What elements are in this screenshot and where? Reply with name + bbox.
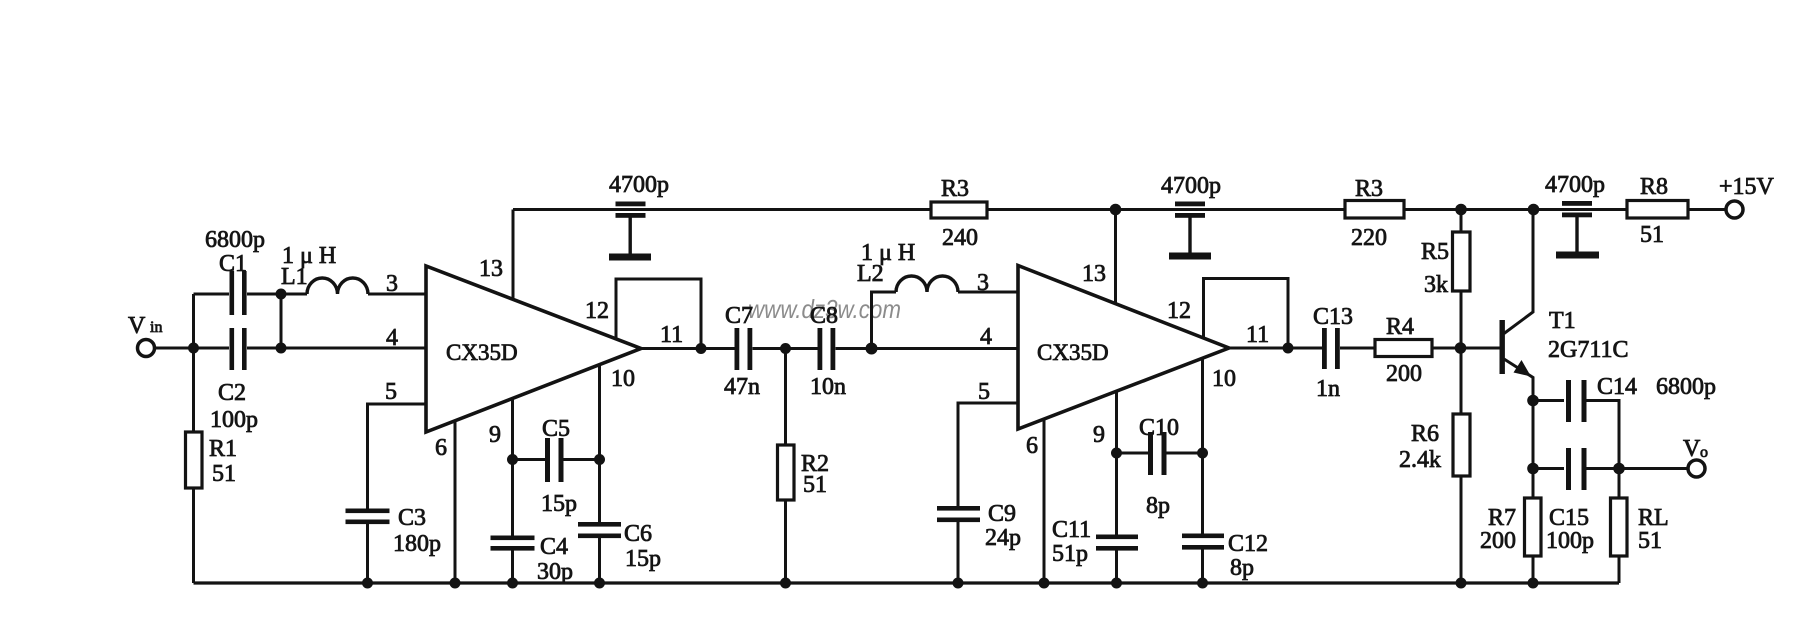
svg-text:C4: C4: [540, 534, 568, 560]
resistor R6: [1460, 348, 1463, 414]
svg-text:240: 240: [942, 225, 978, 251]
svg-text:51p: 51p: [1052, 541, 1088, 567]
node rail collector: [1528, 204, 1540, 216]
wire C14 right and down: [1584, 401, 1619, 469]
wire C9 bottom to rail: [957, 522, 960, 583]
node R2 rail: [780, 578, 791, 589]
svg-text:4700p: 4700p: [609, 172, 669, 198]
svg-text:51: 51: [1640, 222, 1664, 248]
svg-text:R5: R5: [1421, 239, 1449, 265]
capacitor C14: [1566, 380, 1587, 422]
svg-text:30p: 30p: [537, 559, 573, 585]
node C5 right junction: [594, 454, 605, 465]
node C3 rail: [362, 578, 373, 589]
svg-text:C9: C9: [988, 501, 1016, 527]
capacitor C9: [937, 506, 980, 522]
wire amp2 pin6: [1043, 419, 1046, 583]
capacitor C5: [545, 438, 564, 482]
svg-text:6800p: 6800p: [205, 227, 265, 253]
node C10 right junction: [1197, 448, 1208, 459]
svg-text:C11: C11: [1052, 517, 1091, 543]
wire amp2 output to C13: [1229, 347, 1323, 350]
node L1 junction top: [276, 289, 287, 300]
resistor R8: [1627, 201, 1688, 219]
wire emitter node down to Vo line: [1532, 401, 1535, 469]
wire riser input node up to C1 line: [192, 294, 195, 348]
wire RL bottom to rail end: [1618, 556, 1621, 583]
capacitor C12: [1182, 534, 1224, 550]
node C5 left junction: [507, 454, 518, 465]
op-amp U1 CX35D triangle: [426, 266, 641, 432]
svg-text:C6: C6: [624, 521, 652, 547]
node RL junction: [1613, 463, 1625, 475]
svg-text:R3: R3: [941, 176, 969, 202]
wire C4 bottom to rail: [511, 550, 514, 583]
capacitor C11: [1096, 535, 1138, 551]
svg-text:C5: C5: [542, 416, 570, 442]
wire C15 right to RL node: [1584, 467, 1619, 470]
capacitor C7: [735, 328, 753, 370]
svg-text:47n: 47n: [724, 374, 760, 400]
svg-text:C3: C3: [398, 505, 426, 531]
svg-text:15p: 15p: [625, 546, 661, 572]
wire C15 left: [1533, 467, 1564, 470]
svg-text:11: 11: [1246, 322, 1269, 348]
node amp2 pin6 rail: [1039, 578, 1050, 589]
resistor RL: [1618, 469, 1621, 499]
svg-text:C10: C10: [1139, 415, 1179, 441]
svg-text:C14: C14: [1597, 374, 1637, 400]
wire riser L2: [872, 292, 897, 349]
node feedback output amp2: [1283, 343, 1294, 354]
resistor R3 240: [931, 202, 987, 218]
capacitor C10: [1148, 432, 1167, 475]
node R6 rail: [1456, 578, 1467, 589]
svg-text:10n: 10n: [810, 374, 846, 400]
wire C5 left: [513, 458, 546, 461]
svg-text:C1: C1: [219, 251, 247, 277]
capacitor 4700p (first, on rail): [609, 202, 651, 261]
node C15 left junction: [1527, 463, 1539, 475]
svg-text:24p: 24p: [985, 525, 1021, 551]
node emitter junction: [1527, 395, 1539, 407]
svg-text:3: 3: [386, 271, 398, 297]
svg-text:CX35D: CX35D: [446, 340, 518, 365]
svg-text:o: o: [1700, 444, 1708, 461]
capacitor C2: [230, 328, 247, 370]
svg-text:C12: C12: [1228, 531, 1268, 557]
wire C7 to C8: [753, 347, 819, 350]
resistor R1: [192, 348, 195, 432]
svg-text:4: 4: [980, 324, 992, 350]
op-amp U2 CX35D triangle: [1018, 266, 1229, 430]
svg-text:V: V: [128, 313, 146, 339]
svg-text:200: 200: [1386, 361, 1422, 387]
svg-text:11: 11: [660, 322, 683, 348]
wire amp1 pin9 upper: [511, 398, 514, 536]
node rail R5: [1455, 204, 1467, 216]
resistor R5: [1460, 210, 1463, 233]
svg-text:13: 13: [479, 256, 503, 282]
svg-text:CX35D: CX35D: [1037, 340, 1109, 365]
wire R2 bottom to rail: [784, 500, 787, 583]
svg-text:12: 12: [1167, 298, 1191, 324]
svg-text:6: 6: [1026, 433, 1038, 459]
wire amp2 feedback pin12 to pin11: [1204, 279, 1289, 349]
svg-text:51: 51: [212, 461, 236, 487]
wire amp2 pin9 upper: [1115, 391, 1118, 535]
svg-text:4: 4: [386, 325, 398, 351]
svg-text:5: 5: [978, 379, 990, 405]
node C10 left junction: [1111, 448, 1122, 459]
node input junction: [188, 343, 199, 354]
svg-text:51: 51: [803, 472, 827, 498]
resistor R4: [1375, 340, 1432, 357]
capacitor 4700p (second, on rail): [1169, 202, 1211, 260]
resistor R2: [784, 349, 787, 446]
svg-text:C2: C2: [218, 380, 246, 406]
node rail amp2 pin13: [1110, 204, 1122, 216]
svg-text:R6: R6: [1411, 421, 1439, 447]
svg-text:C7: C7: [725, 303, 753, 329]
wire amp2 pin13 from rail: [1114, 210, 1117, 305]
wire bottom rail: [194, 581, 1620, 584]
node R7 rail: [1528, 578, 1539, 589]
capacitor 4700p (third, on rail): [1556, 201, 1599, 259]
svg-text:100p: 100p: [1546, 528, 1594, 554]
node L2 junction: [866, 343, 878, 355]
wire amp2 pin10 upper: [1201, 358, 1204, 534]
wire C10 right: [1167, 452, 1203, 455]
svg-text:180p: 180p: [393, 531, 441, 557]
svg-text:L1: L1: [281, 264, 308, 290]
svg-text:8p: 8p: [1230, 555, 1254, 581]
svg-text:15p: 15p: [541, 491, 577, 517]
wire riser between C1 node and pin4 line: [280, 294, 283, 348]
svg-text:220: 220: [1351, 225, 1387, 251]
svg-text:6: 6: [435, 435, 447, 461]
wire C8 to amp2 pin4: [836, 347, 1019, 350]
wire R5 bottom to base node: [1460, 291, 1463, 348]
wire amp1 pin6: [454, 421, 457, 583]
terminal Vo: [1688, 460, 1705, 477]
svg-text:12: 12: [585, 298, 609, 324]
wire emitter node to C14: [1533, 399, 1564, 402]
svg-text:10: 10: [1212, 366, 1236, 392]
wire C12 bottom to rail: [1201, 549, 1204, 583]
wire L2 coil to amp2 pin3: [958, 291, 1018, 294]
resistor R3 220: [1345, 201, 1404, 219]
svg-text:51: 51: [1638, 528, 1662, 554]
svg-text:10: 10: [611, 366, 635, 392]
wire L1 node to coil: [281, 293, 307, 296]
capacitor C3: [346, 509, 390, 525]
svg-text:R4: R4: [1386, 314, 1414, 340]
terminal +15V: [1726, 201, 1743, 218]
wire C13 to R4: [1340, 347, 1375, 350]
svg-text:R8: R8: [1640, 174, 1668, 200]
node C2 right junction: [276, 343, 287, 354]
node R2 junction: [780, 343, 791, 354]
wire R7 bottom to rail: [1532, 556, 1535, 583]
svg-text:3k: 3k: [1424, 272, 1448, 298]
capacitor C4: [491, 536, 535, 551]
svg-text:L2: L2: [857, 261, 884, 287]
wire R1 bottom to ground rail: [192, 488, 195, 583]
wire amp1 output to C7: [641, 347, 735, 350]
node pin9 rail: [507, 578, 518, 589]
capacitor C15: [1566, 448, 1587, 490]
svg-text:in: in: [150, 319, 162, 336]
wire C11 bottom to rail: [1115, 550, 1118, 583]
svg-text:200: 200: [1480, 528, 1516, 554]
svg-text:2G711C: 2G711C: [1548, 337, 1628, 363]
wire C2 right to amp1 pin4: [247, 347, 426, 350]
svg-text:2.4k: 2.4k: [1399, 447, 1441, 473]
wire R4 to base node: [1432, 347, 1500, 350]
terminal Vin: [138, 340, 155, 357]
wire top rail: [513, 208, 1725, 211]
svg-text:T1: T1: [1549, 308, 1576, 334]
svg-text:4700p: 4700p: [1545, 172, 1605, 198]
svg-text:V: V: [1683, 436, 1701, 462]
wire amp2 pin5: [958, 403, 1018, 506]
svg-text:4700p: 4700p: [1161, 173, 1221, 199]
capacitor C13: [1322, 328, 1340, 369]
node amp2 pin9 rail: [1111, 578, 1122, 589]
svg-text:9: 9: [489, 422, 501, 448]
svg-text:C13: C13: [1313, 304, 1353, 330]
svg-text:8p: 8p: [1146, 493, 1170, 519]
svg-text:5: 5: [385, 379, 397, 405]
svg-text:6800p: 6800p: [1656, 374, 1716, 400]
wire C6 bottom to rail: [598, 538, 601, 583]
wire amp1 pin13 from top rail: [512, 210, 515, 300]
svg-text:9: 9: [1093, 422, 1105, 448]
node feedback output amp1: [696, 343, 707, 354]
node amp2 pin10 rail: [1197, 578, 1208, 589]
wire C1 line left segment: [194, 293, 230, 296]
inductor L1: [307, 278, 368, 294]
wire L1 coil to amp1 pin3: [368, 293, 426, 296]
resistor R7: [1532, 469, 1535, 499]
wire Vo line: [1619, 467, 1688, 470]
capacitor C1: [230, 271, 247, 315]
wire C5 right: [564, 458, 600, 461]
svg-text:13: 13: [1082, 261, 1106, 287]
wire C10 left: [1117, 452, 1149, 455]
node C9 rail: [953, 578, 964, 589]
node pin6 rail: [450, 578, 461, 589]
capacitor C6: [578, 522, 621, 538]
node base junction: [1455, 342, 1467, 354]
wire R8 to +15V terminal: [1688, 208, 1726, 211]
wire amp1 pin5: [368, 404, 427, 509]
transistor T1 2G711C: [1500, 210, 1534, 401]
svg-text:R3: R3: [1355, 176, 1383, 202]
wire R6 bottom to rail: [1460, 476, 1463, 583]
wire input Vin to C2 left: [155, 347, 229, 350]
wire amp1 feedback pin12 to pin11: [616, 279, 701, 349]
wire C1 right to L1 node: [247, 293, 281, 296]
svg-text:C8: C8: [810, 303, 838, 329]
svg-text:R1: R1: [209, 436, 237, 462]
wire amp1 pin10 upper: [598, 364, 601, 522]
capacitor C8: [818, 328, 836, 370]
svg-text:3: 3: [977, 270, 989, 296]
node pin10 rail: [594, 578, 605, 589]
svg-text:1n: 1n: [1316, 376, 1340, 402]
svg-text:+15V: +15V: [1719, 174, 1775, 200]
inductor L2: [896, 276, 958, 292]
svg-text:100p: 100p: [210, 407, 258, 433]
wire C3 bottom to rail: [366, 524, 369, 583]
